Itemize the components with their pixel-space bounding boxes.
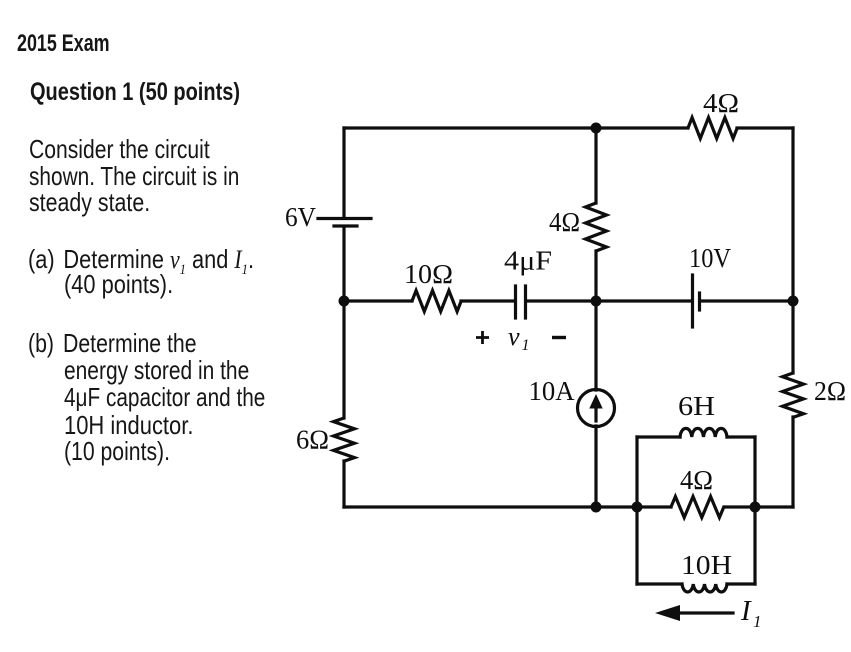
wire top rail left segment (344, 126, 688, 129)
item (a) line 2 (64, 269, 173, 300)
node box-right (750, 502, 761, 513)
node box-left (632, 502, 643, 513)
wire right rail lower (791, 417, 794, 507)
item (b) line 2 (64, 355, 249, 386)
svg-text:10A: 10A (529, 376, 575, 406)
resistor R-6ohm zigzag (334, 418, 355, 461)
svg-text:6V: 6V (285, 202, 316, 232)
wire bottom rail left (344, 505, 671, 508)
current source I-10A circle (578, 390, 615, 427)
svg-text:10H: 10H (681, 550, 732, 580)
battery V-10V short plate (698, 293, 701, 310)
inductor box right rail (753, 437, 756, 584)
svg-text:1: 1 (753, 612, 762, 631)
inductor L-10H coils (682, 584, 727, 592)
title 2015 Exam (17, 30, 110, 58)
wire current-source branch lower (594, 426, 597, 507)
paragraph line 1 (29, 134, 210, 165)
svg-text:10V: 10V (689, 243, 731, 273)
wire middle rail right of 10V (701, 299, 793, 302)
wire right rail upper (791, 128, 794, 373)
wire middle branch upper (top node down to 4ohm) (594, 128, 597, 203)
svg-text:v: v (508, 322, 520, 351)
item (b) line 4 (64, 410, 193, 441)
wire box bottom branch right (727, 582, 755, 585)
wire current-source branch upper (594, 301, 597, 390)
node bottom-center (591, 502, 602, 513)
wire left rail upper (to 6V battery) (342, 128, 345, 217)
capacitor C-4uF left plate (514, 286, 517, 318)
label minus sign (552, 336, 566, 339)
resistor R-4ohm-top zigzag (688, 118, 737, 139)
wire box top branch left (637, 435, 680, 438)
svg-text:I: I (740, 595, 752, 627)
arrow I1 head (655, 605, 680, 621)
item (a) line 1 (28, 244, 254, 279)
svg-text:1: 1 (522, 337, 530, 354)
wire bottom rail right (724, 505, 793, 508)
battery V-10V long plate (691, 275, 694, 327)
item (b) line 1 (28, 328, 197, 359)
node middle-right (788, 296, 799, 307)
svg-text:6Ω: 6Ω (296, 425, 329, 455)
battery V-6V short plate (334, 224, 357, 227)
item (b) line 5 (64, 436, 170, 467)
current source arrow shaft (594, 406, 597, 421)
wire middle rail between capacitor and node (527, 299, 691, 302)
wire middle rail between 10ohm and capacitor (461, 299, 514, 302)
paragraph line 3 (29, 187, 150, 218)
svg-text:4Ω: 4Ω (703, 88, 739, 118)
svg-text:10Ω: 10Ω (404, 259, 453, 289)
wire top rail right segment (737, 126, 793, 129)
inductor box left rail (635, 437, 638, 584)
wire box top branch right (727, 435, 755, 438)
current source arrow head (589, 394, 602, 409)
paragraph line 2 (29, 161, 239, 192)
item (b) line 3 (64, 382, 265, 413)
node middle-center (591, 296, 602, 307)
svg-text:2Ω: 2Ω (814, 376, 846, 406)
resistor R-10ohm zigzag (412, 291, 461, 312)
resistor R-4ohm-vertical zigzag (586, 203, 607, 251)
svg-text:4μF: 4μF (504, 246, 552, 276)
wire box bottom branch left (637, 582, 682, 585)
arrow I1 shaft (678, 611, 733, 614)
svg-text:4Ω: 4Ω (680, 465, 713, 495)
wire middle branch (4ohm down to middle rail) (594, 251, 597, 301)
wire middle rail left (344, 299, 412, 302)
label plus sign (476, 331, 489, 344)
wire left rail bottom (6ohm to corner) (342, 461, 345, 507)
svg-text:6H: 6H (678, 391, 715, 421)
heading Question 1 (30, 78, 240, 107)
battery V-6V long plate (318, 217, 371, 220)
inductor L-6H coils (680, 428, 727, 437)
node middle-left (339, 296, 350, 307)
node top middle (591, 123, 602, 134)
resistor R-4ohm-box zigzag (671, 497, 724, 518)
wire left rail lower (battery to 6ohm) (342, 227, 345, 418)
resistor R-2ohm zigzag (783, 373, 804, 417)
svg-text:4Ω: 4Ω (549, 207, 580, 237)
capacitor C-4uF right plate (524, 286, 527, 318)
